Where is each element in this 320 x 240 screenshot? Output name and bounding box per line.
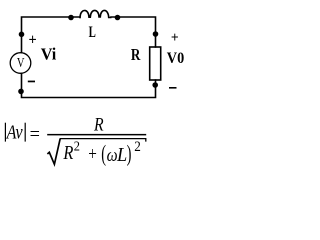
svg-text:(: (: [101, 141, 106, 167]
svg-text:2: 2: [74, 139, 80, 154]
svg-text:L: L: [116, 145, 127, 166]
svg-text:+: +: [88, 144, 97, 165]
svg-text:R: R: [93, 115, 104, 136]
svg-text:2: 2: [134, 139, 141, 155]
svg-text:L: L: [89, 24, 96, 41]
svg-text:): ): [127, 141, 132, 167]
svg-text:+: +: [29, 32, 37, 49]
svg-text:R: R: [131, 45, 141, 64]
svg-text:=: =: [30, 124, 40, 145]
svg-text:V0: V0: [167, 50, 184, 67]
svg-text:R: R: [63, 142, 74, 164]
svg-text:Vi: Vi: [41, 45, 57, 64]
svg-text:ω: ω: [107, 145, 118, 166]
svg-text:+: +: [171, 30, 179, 46]
svg-text:V: V: [17, 56, 25, 71]
svg-text:Av: Av: [5, 122, 23, 144]
